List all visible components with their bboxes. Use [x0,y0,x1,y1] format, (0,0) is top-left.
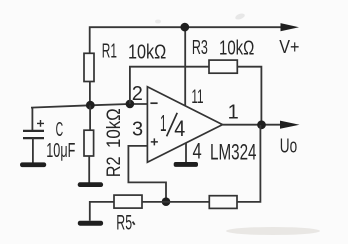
svg-text:10kΩ: 10kΩ [219,37,254,59]
resistor R4 (feedback, unlabeled) [209,196,237,209]
wire: R3 right lead down to output node [237,67,261,121]
svg-text:2: 2 [132,83,143,105]
svg-text:11: 11 [191,86,203,108]
wire: top rail from R1 top corner to V+ arrow [90,27,283,53]
wire: pin 3 run down to bottom feedback node [128,146,166,202]
svg-text:10kΩ: 10kΩ [103,108,125,148]
ground (capacitor) [20,162,46,167]
wire: R1 bottom lead [89,82,91,104]
svg-text:10kΩ: 10kΩ [128,41,166,63]
resistor R1 [84,53,94,81]
capacitor C plates [23,131,44,138]
svg-text:4: 4 [193,139,202,164]
node junction bottom (R5 / feedback) [162,197,171,206]
wire: R2 top lead [89,105,91,130]
node junction A (R1/R2/C rail) [86,101,95,110]
capacitor C1 lead [31,107,33,131]
node junction top (V+ rail / pin11) [180,23,189,32]
capacitor + polarity mark [37,120,44,127]
ground (R2) [78,182,103,187]
svg-text:C: C [56,119,64,141]
op-amp non-inverting input mark + [151,138,158,145]
wire: R5 to bottom node [142,201,166,203]
smudge artifacts [234,12,245,20]
svg-text:1: 1 [228,101,239,123]
resistor R5 [114,195,142,208]
wire: capacitor bottom lead [32,138,34,163]
wire: bottom node to feedback resistor [166,201,209,203]
ground (pin 4) [174,162,198,167]
svg-text:Uo: Uo [280,134,297,157]
op-amp inverting input mark - [150,102,157,104]
svg-text:3: 3 [132,119,143,141]
svg-text:R5: R5 [116,211,132,235]
wire: R2 bottom lead [88,156,90,183]
wire: feedback resistor right lead up to output node [237,125,260,202]
svg-text:R1: R1 [102,41,117,63]
node junction B (pin2 node / R3 tap) [126,100,135,109]
node junction output [257,120,266,129]
svg-text:1: 1 [160,110,167,136]
wire: pin 4 to ground [185,143,187,162]
op-amp U1 triangle 1/4 LM324 [147,87,222,163]
wire: R3 left lead (down from feedback run) [130,67,209,104]
wire: output from op-amp apex to Uo arrow [223,124,283,126]
Uo arrowhead [280,121,300,129]
svg-text:LM324: LM324 [210,140,257,165]
svg-text:4: 4 [174,116,185,141]
ground (R5) [78,221,103,226]
wire: left node rail (C / R1 / R2 / R3 / pin2) [31,104,147,108]
V+ arrowhead [281,23,300,31]
resistor R3 [209,60,237,73]
svg-text:V+: V+ [279,36,299,57]
resistor R2 [84,130,94,156]
wire: pin 11 supply from top rail [184,27,186,106]
wire: R5 left lead from ground [90,202,114,221]
svg-text:R2: R2 [103,156,125,177]
svg-text:R3: R3 [192,37,208,59]
svg-text:10μF: 10μF [46,140,75,162]
